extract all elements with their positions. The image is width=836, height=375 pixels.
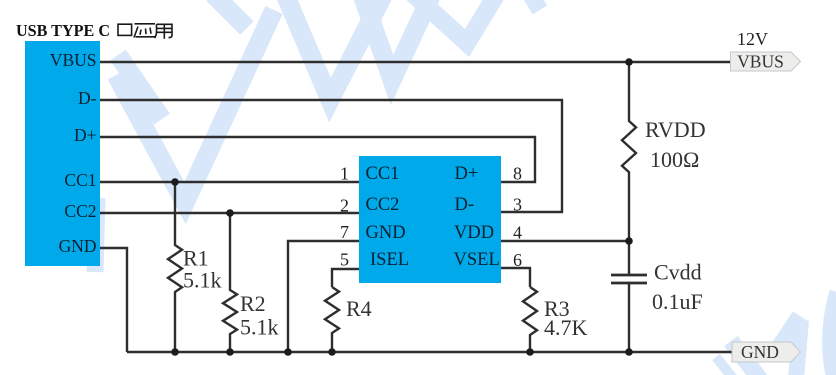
svg-text:8: 8: [513, 164, 522, 184]
resistor RVDD: [622, 62, 636, 241]
svg-text:CC1: CC1: [366, 164, 400, 184]
svg-text:GND: GND: [59, 236, 97, 256]
svg-text:VDD: VDD: [454, 223, 494, 243]
watermark diagonal W strokes top: [95, 0, 540, 272]
wire D+ net: [100, 137, 535, 182]
svg-text:RVDD: RVDD: [645, 117, 706, 142]
capacitor Cvdd plates: [611, 275, 647, 283]
junction CC1/R1: [171, 178, 179, 186]
svg-text:VSEL: VSEL: [454, 250, 500, 270]
svg-text:7: 7: [340, 222, 349, 242]
junction rail/R3: [526, 348, 534, 356]
wire IC pin4 VDD net: [501, 240, 629, 242]
svg-text:4: 4: [513, 223, 522, 243]
svg-text:USB TYPE C: USB TYPE C: [16, 21, 110, 40]
wire CC2 net: [100, 212, 359, 214]
label R2 value 5.1k: [240, 291, 279, 340]
svg-text:D+: D+: [74, 125, 97, 145]
junction rail/R1: [171, 348, 179, 356]
label RVDD value 100ohm: [645, 117, 706, 172]
svg-text:5: 5: [340, 250, 349, 270]
svg-text:0.1uF: 0.1uF: [652, 289, 703, 314]
junction rail/Cvdd: [625, 348, 633, 356]
wire VBUS net: [100, 61, 730, 63]
svg-text:Cvdd: Cvdd: [654, 260, 702, 285]
title USB TYPE C口应用: [16, 21, 172, 40]
svg-text:GND: GND: [366, 223, 406, 243]
junction rail/R4: [328, 348, 336, 356]
wire IC pin6 VSEL to R3: [501, 268, 530, 287]
USB Type-C connector block J1: [25, 41, 100, 266]
svg-text:D-: D-: [78, 88, 97, 108]
svg-text:CC2: CC2: [366, 195, 400, 215]
label R3 value 4.7K: [544, 296, 588, 340]
wire CC1 net: [100, 181, 359, 183]
svg-text:100Ω: 100Ω: [650, 147, 699, 172]
net tag GND (ground): [732, 342, 801, 362]
net tag VBUS: [731, 52, 801, 72]
resistor R4: [325, 287, 339, 352]
svg-text:5.1k: 5.1k: [183, 268, 222, 293]
svg-text:4.7K: 4.7K: [544, 315, 588, 340]
svg-text:CC1: CC1: [64, 170, 96, 190]
svg-text:1: 1: [340, 164, 349, 184]
label R1 value 5.1k: [183, 246, 222, 293]
junction rail/R2: [226, 348, 234, 356]
op-amp/controller IC U1: [359, 156, 501, 283]
wire USB GND to rail: [100, 248, 127, 352]
junction VDD/RVDD/Cvdd: [625, 237, 633, 245]
svg-text:12V: 12V: [737, 29, 768, 49]
label Cvdd value 0.1uF: [652, 260, 703, 315]
wire D- net: [100, 100, 562, 212]
wire IC pin5 ISEL to R4: [332, 269, 359, 287]
wire bottom GND rail: [127, 351, 732, 353]
junction rail/IC GND: [284, 348, 292, 356]
svg-text:D+: D+: [455, 164, 479, 184]
svg-text:GND: GND: [741, 342, 779, 362]
svg-text:CC2: CC2: [64, 201, 96, 221]
junction CC2/R2: [226, 209, 234, 217]
svg-text:D-: D-: [455, 195, 475, 215]
svg-text:5.1k: 5.1k: [240, 315, 279, 340]
svg-text:VBUS: VBUS: [737, 52, 784, 72]
svg-text:R2: R2: [240, 291, 266, 316]
wire IC pin7 GND to rail: [288, 241, 359, 352]
svg-text:ISEL: ISEL: [370, 250, 409, 270]
resistor R3: [523, 287, 537, 352]
svg-text:R4: R4: [346, 296, 372, 321]
resistor R2: [223, 213, 237, 352]
junction VBUS/RVDD: [625, 58, 633, 66]
watermark bottom-right letter fragments: [716, 292, 836, 375]
svg-text:VBUS: VBUS: [50, 50, 97, 70]
capacitor Cvdd lead wires: [628, 241, 630, 352]
resistor R1: [168, 182, 182, 352]
